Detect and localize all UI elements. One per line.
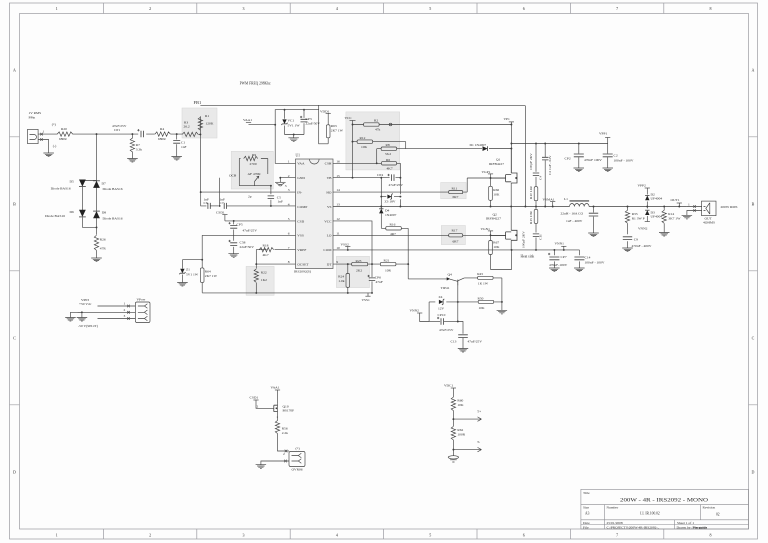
svg-text:4: 4 (288, 203, 290, 207)
svg-text:UF4004: UF4004 (651, 196, 663, 200)
svg-text:R63: R63 (331, 124, 337, 128)
highlight box around R11 (441, 183, 466, 199)
wire emitter to CP10 row (457, 302, 459, 322)
svg-text:TIP41: TIP41 (441, 286, 450, 290)
svg-text:VDD1: VDD1 (320, 109, 330, 113)
svg-text:CP2: CP2 (565, 157, 571, 161)
ground C13 (458, 349, 468, 353)
ground CP7 (549, 268, 560, 272)
svg-text:DT: DT (327, 263, 333, 267)
node junction input (96, 133, 98, 135)
svg-text:R6: R6 (386, 158, 390, 162)
svg-text:10: 10 (336, 246, 340, 250)
svg-text:47uF/25V: 47uF/25V (468, 340, 483, 344)
resistor R2 (353, 119, 512, 132)
svg-text:7: 7 (616, 6, 618, 11)
svg-text:VPow: VPow (137, 298, 146, 302)
svg-text:56.2: 56.2 (385, 152, 391, 156)
svg-text:Z4: Z4 (439, 295, 443, 299)
svg-text:D7: D7 (102, 182, 107, 186)
svg-text:R56: R56 (282, 427, 288, 431)
svg-text:CSH: CSH (325, 162, 332, 166)
row tick marks left and right (10, 137, 758, 405)
resistor R3 (182, 121, 198, 137)
column numbers bottom (56, 533, 712, 538)
resistor R45 (464, 272, 502, 302)
svg-text:R23: R23 (356, 259, 362, 263)
TITLE BLOCK (581, 489, 749, 529)
svg-text:1nF: 1nF (278, 200, 284, 204)
svg-text:7: 7 (288, 246, 290, 250)
svg-text:100pF 2KV: 100pF 2KV (529, 153, 533, 170)
resistor R9 feedback pot network (239, 153, 271, 186)
svg-text:VNN2: VNN2 (638, 227, 648, 231)
svg-text:OCSET: OCSET (297, 263, 309, 267)
svg-text:11: 11 (336, 231, 340, 235)
svg-text:1: 1 (688, 202, 690, 206)
svg-text:100R: 100R (457, 433, 465, 437)
capacitor CP3 (300, 109, 320, 135)
INPUT SECTION (28, 81, 526, 261)
svg-text:680R: 680R (59, 137, 67, 141)
wire VREF pin7 (256, 250, 295, 264)
resistor R11 (449, 187, 463, 199)
wire FB1 vertical (524, 106, 526, 207)
svg-text:1K 1W: 1K 1W (478, 282, 489, 286)
zener Z3 (380, 177, 400, 208)
svg-text:4: 4 (336, 533, 338, 538)
svg-text:6: 6 (523, 533, 525, 538)
POWER STAGE (406, 106, 634, 272)
resistor R14 (662, 207, 681, 233)
svg-text:1uF - 400V: 1uF - 400V (566, 219, 583, 223)
svg-text:VP1: VP1 (504, 117, 511, 121)
svg-text:C1: C1 (181, 141, 185, 145)
wire DT to Q4 base (408, 278, 447, 280)
svg-text:R22: R22 (261, 271, 267, 275)
svg-text:C11: C11 (539, 234, 543, 240)
wire OVR06 gnd pin (261, 460, 289, 465)
ground C1 (171, 157, 182, 161)
transistor Q2 IRFB4227 (486, 207, 517, 250)
resistor R1 (198, 114, 214, 130)
zener Z1 (179, 260, 202, 283)
svg-text:Z3 18V: Z3 18V (385, 199, 396, 203)
resistor R35 zobel (625, 207, 644, 235)
svg-text:C13: C13 (451, 340, 457, 344)
svg-text:*: * (277, 416, 279, 420)
highlight box around R23 R24 (336, 256, 369, 287)
diode clamp network D5-D8 (45, 134, 123, 235)
svg-text:3: 3 (243, 533, 245, 538)
svg-text:6: 6 (523, 6, 525, 11)
connector J1 audio input (28, 111, 49, 153)
svg-text:R7: R7 (136, 143, 140, 147)
diode D3 (645, 207, 662, 222)
column tick marks bottom (103, 529, 663, 539)
svg-text:10R: 10R (385, 268, 392, 272)
column tick marks top (103, 3, 663, 14)
svg-text:D1 1N4007: D1 1N4007 (470, 143, 487, 147)
svg-text:1N4007: 1N4007 (385, 213, 397, 217)
svg-text:2.2k: 2.2k (282, 431, 288, 435)
connector VPow (135, 298, 150, 323)
label 2p (248, 194, 252, 198)
zener Z4 (429, 295, 459, 322)
svg-text:VDC1: VDC1 (444, 384, 453, 388)
svg-text:7: 7 (616, 533, 618, 538)
svg-text:6: 6 (288, 231, 290, 235)
label VNN1 (555, 242, 567, 250)
svg-text:1nF: 1nF (181, 145, 187, 149)
svg-text:C7: C7 (220, 201, 224, 205)
svg-text:R21: R21 (384, 259, 390, 263)
svg-text:D5: D5 (70, 179, 75, 183)
svg-text:100nF - 100V: 100nF - 100V (585, 261, 605, 265)
svg-text:22uF/50V: 22uF/50V (306, 122, 321, 126)
svg-text:VNN2: VNN2 (410, 309, 420, 313)
svg-text:2K7 1W: 2K7 1W (331, 129, 344, 133)
svg-text:R26: R26 (100, 238, 106, 242)
wire VPow pins (78, 302, 136, 320)
wire VPP rail (511, 143, 607, 145)
svg-text:8: 8 (710, 6, 712, 11)
svg-text:I.I. IR.100.02: I.I. IR.100.02 (640, 512, 660, 516)
svg-text:5V1 1W: 5V1 1W (186, 272, 199, 276)
label OUT1 (671, 198, 682, 207)
resistor R63 loop (319, 105, 344, 144)
capacitor C10 after L1 (589, 207, 598, 234)
svg-text:R1 3W P: R1 3W P (632, 216, 645, 220)
capacitor C5 (268, 185, 283, 207)
svg-text:Z1: Z1 (186, 268, 190, 272)
svg-text:VAA: VAA (297, 162, 305, 166)
svg-text:VNN1: VNN1 (555, 242, 565, 246)
svg-text:CP4: CP4 (377, 173, 383, 177)
VCC / BOOT SECTION (333, 116, 579, 293)
resistor R56 (275, 416, 289, 452)
wire output line (566, 206, 687, 208)
wire VP1 to D1 (510, 124, 512, 173)
svg-text:CSD1: CSD1 (216, 211, 225, 215)
wire VS pin13 (333, 206, 566, 208)
svg-text:680R: 680R (158, 137, 166, 141)
label -50V (78, 324, 99, 328)
svg-text:15: 15 (336, 174, 340, 178)
svg-text:2700: 2700 (250, 162, 257, 166)
diode D1 (406, 143, 512, 151)
svg-text:C4: C4 (539, 176, 543, 180)
svg-text:VS: VS (327, 205, 332, 209)
svg-text:VPP1: VPP1 (599, 132, 608, 136)
svg-text:R2: R2 (374, 119, 378, 123)
wire COM pin10 rail (333, 249, 579, 251)
capacitor C6 (204, 198, 219, 209)
svg-text:R8: R8 (386, 143, 390, 147)
svg-text:VCC: VCC (345, 116, 353, 120)
svg-text:D: D (13, 470, 16, 475)
svg-text:10K: 10K (493, 245, 500, 249)
capacitor C14 (574, 250, 604, 268)
label FB1 (194, 100, 202, 105)
diode D4 (379, 207, 397, 229)
svg-text:R12: R12 (360, 136, 366, 140)
highlight box around R22 (246, 266, 274, 295)
highlight box around R3 R1 (182, 108, 217, 138)
resistor R15 snubber bottom (529, 207, 538, 233)
svg-text:470nF - 400V: 470nF - 400V (632, 244, 652, 248)
svg-text:IN-: IN- (297, 191, 303, 195)
svg-text:Number: Number (607, 506, 619, 510)
label VSS1 (362, 292, 373, 302)
svg-text:120K: 120K (206, 122, 214, 126)
svg-text:+50 Vdc: +50 Vdc (79, 302, 92, 306)
svg-text:10K: 10K (361, 145, 368, 149)
svg-text:A: A (752, 68, 755, 73)
svg-text:6R7: 6R7 (453, 240, 459, 244)
resistor R8 (377, 143, 406, 163)
svg-text:4K7: 4K7 (263, 253, 269, 257)
capacitor C3 (542, 144, 552, 207)
inductor L1 (561, 197, 590, 223)
connector OUT (687, 201, 716, 225)
svg-text:VGN1: VGN1 (481, 227, 491, 231)
resistor R26 (94, 235, 106, 258)
svg-text:CP7: CP7 (561, 255, 567, 259)
ground C14 (574, 268, 585, 272)
diode D2 (645, 192, 662, 206)
svg-text:2: 2 (283, 452, 285, 456)
capacitor C2 (603, 144, 634, 169)
wire T+ arrow (452, 410, 481, 422)
svg-text:C14: C14 (585, 256, 591, 260)
svg-text:C6: C6 (204, 201, 208, 205)
wire HO pin14 (333, 177, 506, 192)
svg-text:R66: R66 (493, 188, 499, 192)
svg-text:IRFB4227: IRFB4227 (486, 217, 501, 221)
svg-text:3.3k: 3.3k (136, 148, 142, 152)
ground R14 (659, 233, 670, 237)
svg-text:UF4004: UF4004 (651, 215, 663, 219)
svg-text:10K: 10K (457, 403, 464, 407)
svg-text:Diode BAS16: Diode BAS16 (103, 187, 123, 191)
svg-text:Heat sink: Heat sink (521, 255, 535, 259)
svg-text:PWM FREQ 298Khz: PWM FREQ 298Khz (240, 81, 271, 85)
svg-text:26.2: 26.2 (184, 125, 190, 129)
svg-text:VREF: VREF (297, 248, 306, 252)
svg-text:D6: D6 (70, 210, 75, 214)
resistor R62 (451, 419, 466, 450)
svg-text:Drawn by: Pierguide: Drawn by: Pierguide (677, 525, 708, 529)
svg-text:47nF: 47nF (376, 280, 383, 284)
wire OCSET pin8 (255, 263, 295, 293)
column numbers top (56, 6, 712, 11)
ground OVR06 (256, 465, 267, 469)
zener VC1 (281, 109, 300, 135)
svg-text:C: C (752, 336, 755, 341)
svg-text:PPin: PPin (29, 116, 36, 120)
svg-text:Diode BAS16: Diode BAS16 (45, 214, 65, 218)
ground R26 (91, 258, 102, 262)
trimmer AF 470R (229, 172, 261, 182)
svg-text:3: 3 (285, 184, 287, 188)
capacitor C4 snubber top (529, 144, 543, 187)
svg-text:25/01/2008: 25/01/2008 (607, 521, 623, 525)
resistor R18 (259, 244, 273, 258)
svg-text:8: 8 (288, 260, 290, 264)
svg-text:VSS1: VSS1 (362, 298, 371, 302)
svg-text:R11: R11 (452, 187, 458, 191)
svg-text:10K: 10K (493, 193, 500, 197)
label VAA1 q3 (271, 386, 281, 404)
svg-text:Title: Title (583, 491, 590, 495)
resistor R21 (380, 259, 396, 273)
svg-text:A: A (13, 68, 16, 73)
svg-text:VAA1: VAA1 (271, 386, 280, 390)
svg-text:12V: 12V (438, 307, 445, 311)
svg-text:470nF 100V: 470nF 100V (584, 158, 602, 162)
capacitor CP7 (548, 250, 568, 268)
svg-text:A3: A3 (585, 512, 590, 516)
wire DT pin9 (333, 263, 409, 279)
ground R50 (497, 310, 508, 314)
svg-text:6R7: 6R7 (453, 195, 459, 199)
label (*) (52, 123, 57, 127)
wire T- arrow (452, 440, 481, 452)
wire GND pin2 (279, 177, 295, 183)
ground VPow left (65, 312, 82, 321)
svg-text:VSMA1: VSMA1 (543, 197, 555, 201)
svg-text:Revision: Revision (703, 506, 716, 510)
svg-text:12: 12 (336, 217, 340, 221)
row letters (13, 68, 755, 475)
svg-text:D8: D8 (102, 210, 107, 214)
capacitor C7 (219, 178, 296, 209)
svg-text:CSD1: CSD1 (250, 396, 259, 400)
svg-text:47R: 47R (100, 247, 107, 251)
svg-text:VCC: VCC (324, 219, 332, 223)
svg-text:B: B (13, 202, 16, 207)
svg-text:3: 3 (124, 314, 126, 318)
svg-text:VB: VB (327, 176, 333, 180)
resistor R10 snubber top (529, 186, 538, 207)
wire VSS rail (202, 292, 372, 294)
ground R7 (127, 159, 138, 163)
svg-text:R67: R67 (493, 241, 499, 245)
svg-text:2: 2 (124, 308, 126, 312)
svg-text:14: 14 (336, 188, 340, 192)
wire VS boot column (399, 178, 401, 208)
ground Z1 (177, 283, 188, 287)
svg-text:5V1 1W: 5V1 1W (288, 124, 301, 128)
svg-text:File: File (583, 525, 589, 529)
svg-text:VGP1: VGP1 (482, 170, 491, 174)
svg-text:47k: 47k (375, 128, 381, 132)
capacitor CP5 (229, 220, 258, 241)
label VPP2 (638, 183, 650, 193)
wire LO pin11 (333, 234, 506, 236)
capacitor CP1 (112, 124, 143, 137)
analog ground pin2 (275, 182, 287, 188)
svg-text:16: 16 (336, 159, 340, 163)
svg-text:100nF - 100V: 100nF - 100V (614, 159, 634, 163)
svg-text:R45: R45 (477, 272, 483, 276)
OUTPUT FILTER (561, 183, 738, 251)
svg-text:2: 2 (149, 6, 151, 11)
capacitor CP10 (429, 313, 459, 332)
transistor Q1 IRFB4227 (489, 149, 517, 207)
svg-text:Sheet 1 of 1: Sheet 1 of 1 (677, 521, 694, 525)
svg-text:R24: R24 (338, 275, 344, 279)
transistor Q4 TIP41 (441, 272, 465, 302)
svg-text:1V RMS: 1V RMS (29, 111, 42, 115)
svg-text:47uF/25V: 47uF/25V (439, 328, 454, 332)
label CSD1 q3 (250, 396, 274, 409)
svg-text:COM: COM (323, 248, 332, 252)
capacitor C1 (173, 133, 186, 156)
resistor R17 (449, 229, 463, 244)
svg-text:VAA1: VAA1 (243, 118, 252, 122)
resistor R7 (130, 133, 142, 158)
svg-text:R60: R60 (457, 399, 463, 403)
highlight box around VCC divider (346, 112, 400, 170)
svg-text:R62: R62 (457, 428, 463, 432)
svg-text:L1: L1 (564, 197, 568, 201)
svg-text:Date: Date (583, 521, 590, 525)
svg-text:200W RMS: 200W RMS (721, 205, 738, 209)
svg-text:FB1: FB1 (194, 100, 202, 105)
wire VB pin15 (333, 177, 401, 179)
capacitor CP2 (565, 144, 603, 169)
svg-text:T+: T+ (477, 410, 481, 414)
svg-text:R18: R18 (263, 244, 269, 248)
svg-text:IRFB4227: IRFB4227 (489, 162, 504, 166)
resistor R60 (451, 397, 464, 419)
svg-text:LO: LO (327, 234, 332, 238)
pin numbers U1 (288, 159, 340, 264)
svg-text:Q4: Q4 (448, 272, 453, 276)
capacitor C58 (229, 240, 255, 254)
svg-text:R64: R64 (205, 270, 211, 274)
svg-text:1: 1 (288, 159, 290, 163)
capacitor C9 zobel (623, 237, 652, 248)
svg-text:C3 1uF - 63V: C3 1uF - 63V (548, 155, 552, 175)
ground CP5 (228, 254, 239, 258)
capacitor C13 (451, 322, 483, 349)
resistor R50 (458, 296, 503, 310)
svg-text:1: 1 (124, 302, 126, 306)
svg-text:2K2: 2K2 (356, 268, 362, 272)
svg-text:R10 14R: R10 14R (529, 186, 533, 199)
svg-text:22uH - 16A CO: 22uH - 16A CO (561, 211, 584, 215)
wire VCC pin12 (333, 124, 372, 265)
op-amp U1 IRS2092 (294, 154, 333, 274)
wire CSH pin16 (333, 162, 381, 164)
resistor R16 (386, 223, 408, 264)
svg-text:22uF/50V: 22uF/50V (240, 245, 255, 249)
wire VAA pin1 (249, 110, 319, 164)
svg-text:VSS: VSS (297, 234, 304, 238)
svg-text:2: 2 (149, 533, 151, 538)
svg-text:3K7 1W: 3K7 1W (668, 216, 681, 220)
svg-text:Diode BAS16: Diode BAS16 (103, 217, 123, 221)
svg-text:5: 5 (429, 6, 431, 11)
svg-text:IRS2092(S): IRS2092(S) (294, 270, 312, 274)
svg-text:1.0k: 1.0k (338, 279, 344, 283)
svg-text:U1: U1 (296, 154, 301, 158)
label VNN2 flag q4 (410, 309, 430, 322)
svg-text:COMP: COMP (297, 205, 307, 209)
